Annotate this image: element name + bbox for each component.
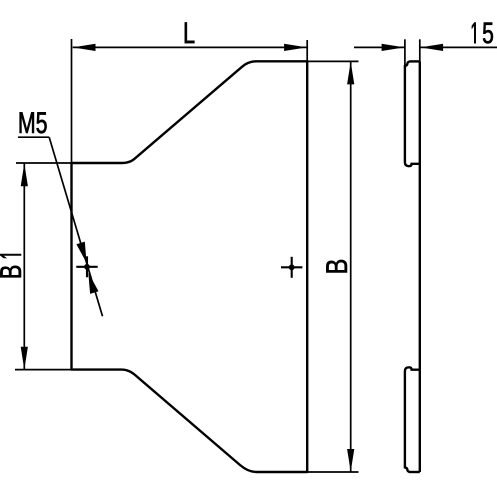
dimension B1 top arrowhead xyxy=(21,163,28,186)
centre mark right cross xyxy=(281,257,302,278)
centre mark left M5 hole cross xyxy=(76,256,97,277)
dimension 15 left arrowhead xyxy=(382,44,405,51)
dimension B top arrowhead xyxy=(347,62,354,85)
dimension 15 right arrowhead xyxy=(420,44,443,51)
dimension L right arrowhead xyxy=(284,44,307,51)
dimension B bottom arrowhead xyxy=(347,449,354,472)
extension line right edge up for L xyxy=(306,40,308,61)
centre mark left dot xyxy=(84,264,90,270)
front view cover outline xyxy=(72,61,308,472)
M5 leader upper arrowhead xyxy=(76,242,86,263)
dimension B1 label xyxy=(0,254,21,277)
dimension B1 line xyxy=(23,164,25,370)
extension line upper-left edge for B1 xyxy=(16,162,72,164)
dimension B1 bottom arrowhead xyxy=(21,347,28,370)
dimension 15 label xyxy=(472,23,493,44)
dimension L left arrowhead xyxy=(73,44,96,51)
extension line left edge up for L xyxy=(71,39,73,163)
M5 thread label xyxy=(20,112,47,133)
extension line lower-left edge for B1 xyxy=(15,369,72,371)
side view top edge xyxy=(410,60,420,62)
centre mark right dot xyxy=(289,264,295,270)
side view bottom edge xyxy=(410,471,420,473)
extension line side view left for 15 xyxy=(404,39,406,66)
dimension L line xyxy=(73,46,307,48)
extension line side view right for 15 xyxy=(419,39,421,61)
dimension 15 left tail xyxy=(354,46,404,48)
dimension 15 right tail xyxy=(420,46,497,48)
side view upper flange profile xyxy=(405,61,420,166)
M5 leader lower arrowhead xyxy=(88,273,98,294)
extension line top edge right for B xyxy=(307,60,358,62)
dimension B label xyxy=(326,260,347,273)
side view lower flange profile xyxy=(405,367,420,472)
dimension B line xyxy=(350,62,352,472)
M5 label underline xyxy=(18,136,49,138)
side view main edge line xyxy=(419,61,421,472)
dimension L label xyxy=(185,22,195,43)
extension line bottom edge right for B xyxy=(307,471,358,473)
M5 leader line xyxy=(49,137,102,316)
